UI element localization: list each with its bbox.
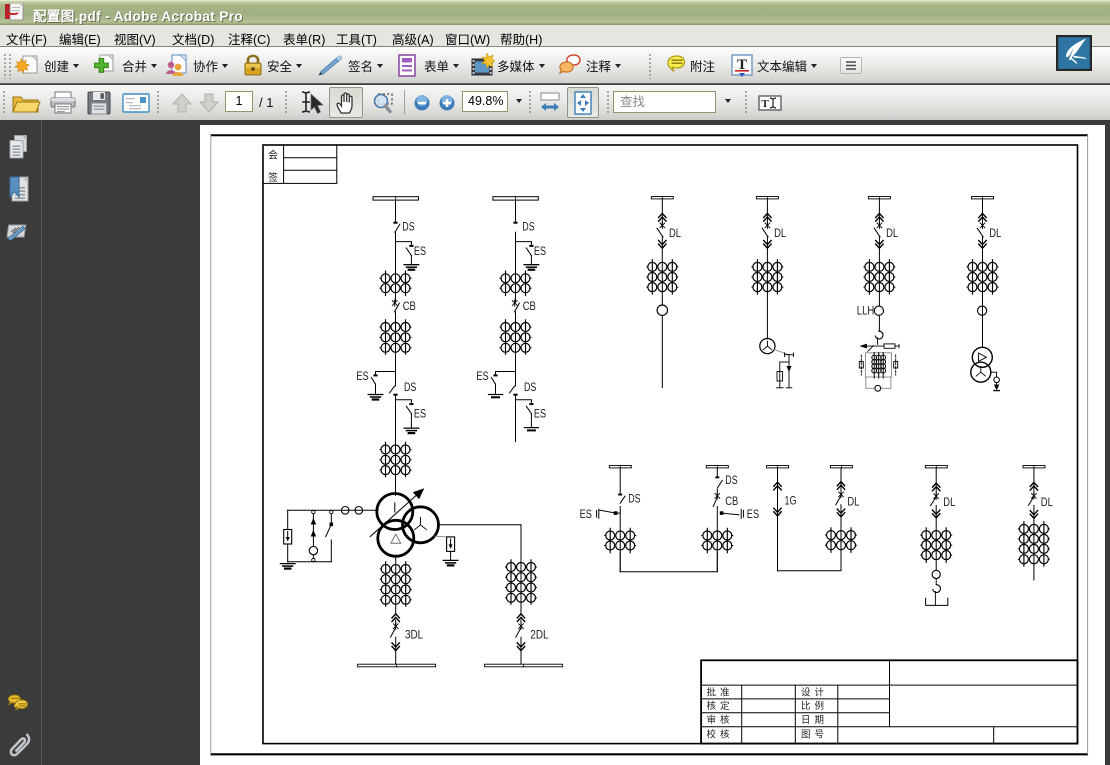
disconnector DS bay2 <box>513 222 517 224</box>
node neutral bottom <box>312 558 315 561</box>
ground <box>524 428 538 431</box>
CT cluster M4 <box>826 528 857 552</box>
wire MV drop to 2DL <box>520 525 522 615</box>
CT cluster B <box>752 260 783 294</box>
drawout chevrons down <box>659 241 666 249</box>
signature table 会签 <box>263 145 337 183</box>
CT cluster bay2 mid <box>500 320 531 354</box>
resistor branch <box>776 353 793 388</box>
busbar feeder B <box>756 197 778 199</box>
breaker DL A <box>657 222 665 237</box>
svg-text:DS: DS <box>524 380 536 394</box>
toolbar row 1 <box>0 47 1110 84</box>
svg-text:签: 签 <box>268 171 278 184</box>
wire <box>934 592 936 606</box>
lead to arrester <box>434 536 451 537</box>
svg-text:ES: ES <box>534 407 546 421</box>
menu bar <box>0 25 1110 47</box>
drawout chevrons <box>876 213 883 221</box>
wire <box>619 507 621 572</box>
wire <box>619 468 621 494</box>
earth switch ES bay2 left <box>491 374 497 394</box>
earth switch ES bay2 lower right <box>526 403 533 427</box>
breaker CB M2 <box>713 493 719 507</box>
sidebar: pages icon <box>10 136 27 159</box>
svg-text:DS: DS <box>522 219 534 233</box>
svg-text:图号: 图号 <box>801 730 828 741</box>
svg-text:DL: DL <box>943 495 955 509</box>
svg-text:DS: DS <box>725 473 737 487</box>
winding mark Y HV <box>394 503 396 512</box>
PT cabinet box <box>865 353 891 377</box>
breaker 2DL <box>516 623 524 637</box>
svg-text:LLH: LLH <box>857 303 875 317</box>
winding mark delta LV <box>391 534 401 543</box>
ground <box>524 265 539 270</box>
ground <box>443 560 458 565</box>
cable CT A <box>657 305 667 315</box>
svg-text:CB: CB <box>403 299 416 313</box>
sidebar: paperclip icon <box>11 734 29 755</box>
wire tie M1-M2 <box>620 553 717 572</box>
wire <box>935 579 937 585</box>
breaker DL M6 <box>1029 493 1037 506</box>
CT cluster C <box>864 260 895 294</box>
sensor coil LLH <box>874 306 883 315</box>
svg-text:ES: ES <box>534 244 546 258</box>
CT cluster bay1 mid <box>380 320 411 354</box>
breaker DL B <box>762 222 770 237</box>
winding Y mark <box>976 367 985 377</box>
wire bay1 lower <box>395 396 397 496</box>
station transformer D two-winding <box>971 347 993 382</box>
drawout chevrons <box>392 614 399 622</box>
transformer T1 three-winding <box>377 494 439 557</box>
drawout chevrons <box>933 483 940 491</box>
PT fuse bar <box>861 344 899 351</box>
wire feeder A tail <box>661 315 663 387</box>
breaker 3DL <box>391 623 399 637</box>
wire ES branch lower <box>396 400 412 403</box>
wire <box>716 489 718 495</box>
lead to resistor branch <box>774 350 789 355</box>
tap changer arrow <box>370 488 424 536</box>
wire <box>840 505 842 553</box>
wire <box>777 468 779 571</box>
earth switch ES M2 <box>720 509 743 518</box>
neutral reactor branch <box>311 514 315 562</box>
drawout chevrons down <box>774 508 781 516</box>
drawout hook <box>875 331 883 339</box>
ground <box>404 428 419 433</box>
wire bay2 lower <box>515 396 517 442</box>
wire <box>840 468 842 494</box>
svg-text:2DL: 2DL <box>530 628 548 642</box>
sidebar: comments icon <box>8 695 27 710</box>
wire neutral left drop <box>287 510 289 529</box>
neutral coil <box>309 546 317 554</box>
CT cluster M5 <box>921 528 952 562</box>
wire <box>982 237 984 348</box>
wire <box>287 544 289 562</box>
CT cluster D <box>967 260 998 294</box>
svg-text:DS: DS <box>402 219 414 233</box>
drawout chevrons down <box>933 510 940 518</box>
svg-text:3DL: 3DL <box>405 628 423 642</box>
drawout chevrons down <box>837 509 844 517</box>
svg-text:批准: 批准 <box>707 686 734 698</box>
svg-text:ES: ES <box>747 507 759 521</box>
svg-text:设计: 设计 <box>801 686 828 698</box>
busbar bay M6 <box>1023 466 1045 468</box>
wire bay1 mid2 <box>395 312 397 386</box>
wire bay2 mid2 <box>515 312 517 386</box>
node disconnector top <box>330 510 333 513</box>
neutral bell <box>875 385 881 391</box>
node neutral top <box>312 510 315 513</box>
wire bay1 drop <box>395 201 397 222</box>
winding delta mark <box>979 353 987 361</box>
busbar bay M1 <box>609 466 631 468</box>
neutral disconnector <box>326 514 333 562</box>
acrobat logo (spans menubar+tb1) <box>1056 35 1092 71</box>
svg-text:ES: ES <box>356 369 368 383</box>
wire neutral tail D <box>991 372 997 377</box>
wire to bottom bus <box>520 620 522 664</box>
busbar feeder A <box>651 197 673 199</box>
ground <box>368 395 383 400</box>
sidebar: bookmarks icon <box>10 177 28 201</box>
CT cluster bay1 upper <box>380 271 411 295</box>
busbar 2DL feeder <box>485 664 563 667</box>
svg-text:DL: DL <box>989 226 1001 240</box>
cable CT M5 <box>932 570 940 578</box>
busbar 3DL feeder <box>358 664 436 667</box>
drawout chevrons <box>1030 482 1037 490</box>
breaker DL D <box>977 222 985 237</box>
svg-text:T: T <box>761 98 769 110</box>
drawout chevrons down <box>876 241 883 249</box>
wire HV neutral horizontal <box>288 509 378 511</box>
drawout chevrons <box>837 482 844 490</box>
disconnector DS M1 <box>618 494 625 504</box>
wire <box>877 338 879 345</box>
breaker DL C <box>874 222 882 237</box>
neutral CT 2 <box>355 507 363 515</box>
wire bay2 mid1 <box>515 232 517 301</box>
white PDF page <box>200 125 1105 765</box>
ground <box>280 564 295 569</box>
wire bay1 mid1 <box>395 232 397 301</box>
wire bay2 drop <box>515 201 517 222</box>
wire <box>766 199 768 226</box>
wire <box>661 199 663 226</box>
cable CT D <box>978 306 987 315</box>
svg-text:CB: CB <box>523 299 536 313</box>
svg-text:DL: DL <box>774 226 786 240</box>
wire <box>878 237 880 331</box>
svg-text:CB: CB <box>725 494 738 508</box>
surge arrester F1 <box>284 530 292 545</box>
svg-text:比例: 比例 <box>801 700 828 712</box>
busbar bay M4 <box>830 466 852 468</box>
CT cluster A <box>647 260 678 294</box>
drawout chevrons <box>979 213 986 221</box>
wire <box>935 468 937 496</box>
ground <box>404 265 419 270</box>
svg-text:校核: 校核 <box>707 729 734 741</box>
sidebar: signatures icon <box>7 225 26 242</box>
svg-text:1G: 1G <box>785 494 797 508</box>
earth switch ES bay1 upper <box>406 245 413 264</box>
svg-text:DS: DS <box>404 380 416 394</box>
PT windings <box>872 353 886 379</box>
wire tie M3-M4 <box>778 552 842 570</box>
CT cluster M1 <box>605 528 636 552</box>
wire neutral bottom tie <box>288 561 332 563</box>
svg-text:ES: ES <box>476 369 488 383</box>
wire <box>982 199 984 226</box>
wire <box>935 506 937 571</box>
earth switch ES M1 <box>597 509 621 518</box>
drawout chevrons <box>517 614 524 622</box>
disconnector DS bay2 lower <box>510 386 518 396</box>
disconnector DS bay1 lower <box>390 386 398 396</box>
breaker CB bay1 <box>392 300 399 312</box>
breaker DL M5 <box>931 493 939 506</box>
wire <box>1033 468 1035 496</box>
svg-text:核定: 核定 <box>707 700 734 712</box>
wire <box>716 468 718 476</box>
earth switch ES bay2 upper <box>526 245 533 264</box>
outer drawing frame <box>211 135 1089 754</box>
CT cluster M6 <box>1018 522 1049 566</box>
surge arrester F2 <box>447 537 455 552</box>
winding mark Y MV <box>414 517 426 530</box>
busbar bay M3 <box>767 466 789 468</box>
CT cluster 2DL <box>506 560 537 604</box>
busbar feeder C <box>868 197 890 199</box>
drawout hook M5 <box>933 585 941 593</box>
neutral CT 1 <box>341 507 349 515</box>
busbar feeder D <box>972 197 994 199</box>
CT cluster bay1 lower <box>380 442 411 476</box>
busbar bay2 <box>493 197 538 200</box>
wire ES branch <box>516 242 532 245</box>
busbar bay M2 <box>706 466 728 468</box>
svg-text:日期: 日期 <box>801 715 828 726</box>
busbar bay1 <box>373 197 418 200</box>
drawout chevrons down <box>1030 511 1037 519</box>
CT cluster 3DL <box>380 562 411 606</box>
wire ES branch lower <box>516 400 532 403</box>
svg-text:DL: DL <box>669 226 681 240</box>
CT cluster bay2 upper <box>500 271 531 295</box>
wire <box>716 507 718 572</box>
wire <box>1033 505 1035 580</box>
svg-text:DS: DS <box>628 491 640 505</box>
wire <box>450 551 452 560</box>
svg-text:DL: DL <box>1041 495 1053 509</box>
disconnector DS bay1 <box>393 222 400 233</box>
svg-text:审核: 审核 <box>707 714 734 726</box>
ground <box>489 395 503 398</box>
wire <box>766 237 768 339</box>
drawout chevrons <box>774 482 781 490</box>
wire MV out <box>438 524 521 526</box>
drawout chevrons down <box>979 241 986 249</box>
breaker CB bay2 <box>512 300 519 312</box>
wire LV drop to 3DL <box>395 555 397 615</box>
svg-text:ES: ES <box>580 507 592 521</box>
wire to bottom bus <box>395 620 397 664</box>
svg-text:ES: ES <box>414 407 426 421</box>
title block table <box>701 660 1077 743</box>
wire ES left branch <box>376 372 396 375</box>
wire <box>878 199 880 226</box>
window title bar <box>0 0 1110 25</box>
busbar bay M5 <box>925 466 947 468</box>
neutral CT D <box>994 377 1000 383</box>
earth switch ES bay1 left <box>371 374 377 394</box>
svg-text:DL: DL <box>886 226 898 240</box>
drawout chevrons down <box>517 643 524 651</box>
PT side taps left <box>859 355 863 375</box>
drawout chevrons down <box>764 241 771 249</box>
toolbar row 2 <box>0 85 1110 120</box>
CT cluster M2 <box>702 528 733 552</box>
cable terminal bracket <box>926 598 948 605</box>
drawout chevrons <box>659 213 666 221</box>
ground with arrow <box>994 383 999 391</box>
drawout chevrons <box>764 213 771 221</box>
PT bottom loop <box>866 377 891 388</box>
wire ES branch <box>396 242 412 245</box>
disconnector DS M2 <box>715 476 722 488</box>
PT side taps right <box>894 355 898 375</box>
wire <box>661 237 663 305</box>
inner drawing frame <box>263 145 1078 744</box>
drawout chevrons down <box>392 643 399 651</box>
svg-text:ES: ES <box>414 244 426 258</box>
earth switch ES bay1 lower right <box>406 403 413 428</box>
breaker DL M4 <box>836 491 844 505</box>
earthing transformer B <box>760 339 775 354</box>
svg-text:会: 会 <box>268 149 278 162</box>
wire ES left branch <box>496 372 516 375</box>
svg-text:DL: DL <box>847 494 859 508</box>
